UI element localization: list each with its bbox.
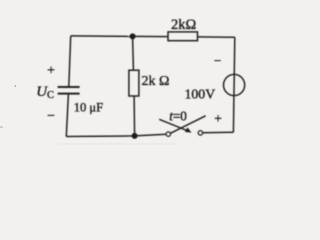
- label plus polarity of C1: [47, 64, 55, 79]
- voltage source U1 100V: [224, 74, 245, 95]
- resistor R2 2kΩ (middle vertical): [129, 70, 139, 96]
- svg-text:−: −: [214, 53, 221, 68]
- svg-text:+: +: [47, 64, 55, 79]
- switch S1 closing-motion arrow: [159, 119, 191, 132]
- svg-text:10 μF: 10 μF: [74, 101, 103, 115]
- wire right vertical (through source): [233, 37, 234, 132]
- paper speck left: [15, 85, 17, 87]
- node B junction dot: [132, 133, 138, 139]
- paper speck lower-left edge: [0, 127, 3, 128]
- label voltage Uc across C1: [36, 84, 54, 101]
- switch S1 left terminal: [166, 132, 170, 136]
- wire top horizontal (node A to R1 left lead): [133, 35, 168, 37]
- wire bottom-right (corner to switch right terminal): [202, 131, 233, 134]
- wire middle branch upper (node A to R2): [132, 36, 135, 70]
- label value 10µF of C1: [74, 101, 103, 115]
- svg-text:2k Ω: 2k Ω: [142, 74, 170, 89]
- node A junction dot: [130, 33, 136, 39]
- switch S1 right terminal: [198, 131, 202, 135]
- svg-text:100V: 100V: [185, 87, 216, 102]
- wire left vertical upper (top-left corner to capacitor): [69, 36, 71, 87]
- svg-text:2kΩ: 2kΩ: [171, 17, 197, 33]
- wire R1 right lead to top-right corner: [198, 36, 235, 38]
- label value 2k Ω of R2: [142, 74, 170, 89]
- wire bottom-left (switch left terminal to bottom-left corner): [66, 134, 166, 136]
- resistor R1 2kΩ (top): [168, 32, 198, 41]
- wire left vertical lower (capacitor to bottom-left corner): [66, 94, 68, 136]
- wire top-left horizontal (top-left corner to node A): [71, 35, 133, 38]
- label t=0 switching time of S1: [169, 109, 187, 124]
- label plus polarity of U1: [214, 111, 222, 126]
- capacitor C1 top plate: [58, 86, 80, 88]
- svg-text:t=0: t=0: [169, 109, 187, 124]
- svg-text:C: C: [47, 90, 54, 101]
- label minus polarity of C1: [47, 109, 55, 124]
- paper smudge bottom edge: [58, 144, 178, 145]
- wire middle branch lower (R2 to node B): [133, 96, 136, 136]
- switch S1 blade: [171, 116, 206, 133]
- label minus polarity of U1: [214, 53, 221, 68]
- svg-text:−: −: [47, 109, 55, 124]
- capacitor C1 bottom plate: [58, 93, 80, 95]
- svg-text:+: +: [214, 111, 222, 126]
- label value 100V of U1: [185, 87, 216, 102]
- label value 2kΩ of R1: [171, 17, 197, 33]
